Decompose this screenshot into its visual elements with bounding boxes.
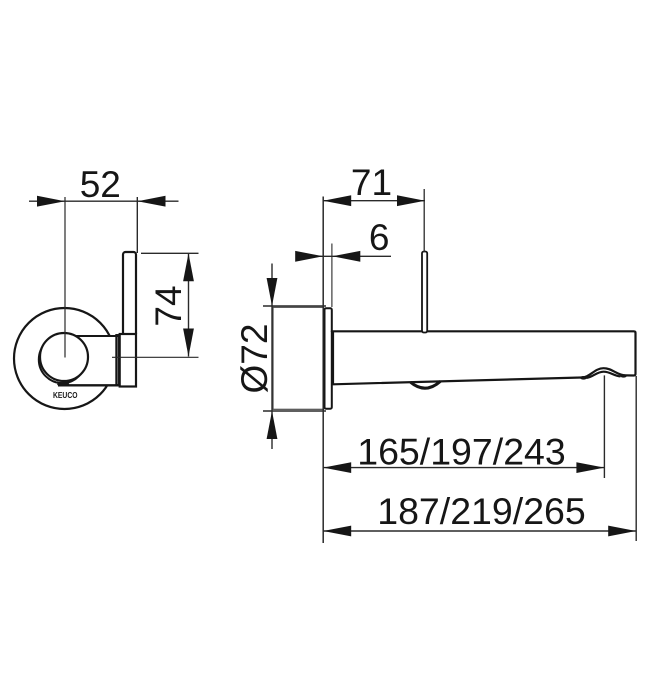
dim 6 left arrow <box>295 251 323 262</box>
dim 165 right extension <box>603 375 605 478</box>
svg-text:KEUCO: KEUCO <box>53 390 78 400</box>
dim 6 right arrow <box>332 251 360 262</box>
dim 187 right arrow <box>608 526 636 537</box>
dim 165 left arrow <box>323 462 351 473</box>
dim 165 line <box>323 467 604 469</box>
dim 71 left arrow <box>323 195 351 206</box>
dim 52 left arrow <box>37 196 65 207</box>
handle knob front view <box>40 333 88 381</box>
dim 187 right extension <box>635 376 637 541</box>
wall extension line <box>322 197 324 544</box>
svg-text:52: 52 <box>80 164 121 205</box>
aerator bump <box>411 381 441 388</box>
horizontal centerline <box>112 356 199 358</box>
dim diameter 72 line <box>271 264 273 450</box>
escutcheon edge dark band <box>115 334 120 387</box>
spout inner hump line <box>587 372 621 378</box>
dim 74 up arrow <box>183 253 194 281</box>
lever grip side profile <box>123 252 136 336</box>
dim 6 line <box>296 255 391 257</box>
dim diameter 72 top extension <box>263 305 326 307</box>
dim 6 right extension line <box>331 244 333 308</box>
knob offset arc <box>39 336 86 383</box>
dim diameter 72 bottom extension <box>263 410 326 412</box>
knob junction blob <box>57 382 69 386</box>
vertical centerline <box>64 197 66 358</box>
escutcheon circle front view <box>14 308 115 409</box>
escutcheon side view <box>325 308 332 408</box>
concealed body thin rect <box>273 307 324 409</box>
dim 74 down arrow <box>183 329 194 357</box>
dim 52 right extension line <box>136 197 138 253</box>
dim 74 line <box>188 253 190 356</box>
lever base side profile <box>120 334 136 387</box>
dim 71 right arrow <box>397 195 425 206</box>
svg-text:74: 74 <box>148 285 189 326</box>
dim 74 top extension line <box>141 252 199 254</box>
svg-text:187/219/265: 187/219/265 <box>377 490 586 532</box>
dim 187 left arrow <box>323 526 351 537</box>
mixer pin <box>422 252 427 333</box>
dim 187 line <box>323 530 636 532</box>
lever arm front view <box>58 336 116 386</box>
svg-text:Ø72: Ø72 <box>234 324 275 394</box>
dim 52 line <box>29 200 179 202</box>
dim diameter 72 up arrow <box>267 411 278 439</box>
dim 52 right arrow <box>138 196 166 207</box>
svg-text:6: 6 <box>369 217 390 258</box>
dim 71 line <box>323 200 425 202</box>
dim 165 right arrow <box>576 462 604 473</box>
svg-text:71: 71 <box>351 162 392 203</box>
svg-text:165/197/243: 165/197/243 <box>357 431 566 473</box>
spout body <box>332 331 636 384</box>
pin extension line <box>423 189 425 252</box>
dim diameter 72 down arrow <box>267 278 278 306</box>
